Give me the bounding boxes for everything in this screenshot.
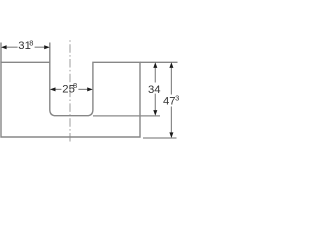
arrow left 25 — [50, 87, 56, 91]
svg-text:3: 3 — [175, 93, 179, 102]
arrow right 25 — [87, 87, 93, 91]
dimension line 25 — [55, 88, 61, 90]
arrow left 31 — [1, 45, 7, 49]
arrow top 34 — [153, 62, 157, 68]
extension line right for 31 — [49, 43, 51, 63]
extension line bottom for 34 — [93, 115, 160, 117]
svg-text:47: 47 — [163, 95, 176, 107]
arrow right 31 — [44, 45, 50, 49]
extension line bottom for 47 — [143, 137, 177, 139]
dimension line 34 — [154, 68, 156, 83]
svg-text:8: 8 — [29, 38, 33, 47]
dimension line 31 — [7, 46, 18, 48]
centerline (dash-dot vertical axis) — [69, 40, 71, 143]
extension line left for 31 — [0, 43, 2, 63]
svg-text:8: 8 — [73, 81, 77, 90]
arrow bottom 47 — [169, 132, 173, 138]
svg-text:34: 34 — [148, 84, 161, 96]
arrow bottom 34 — [153, 110, 157, 116]
panel outline with U-cutout — [1, 62, 140, 137]
top extension line (right of panel) — [140, 61, 178, 63]
dimension line 47 — [170, 68, 172, 95]
arrow top 47 — [169, 62, 173, 68]
